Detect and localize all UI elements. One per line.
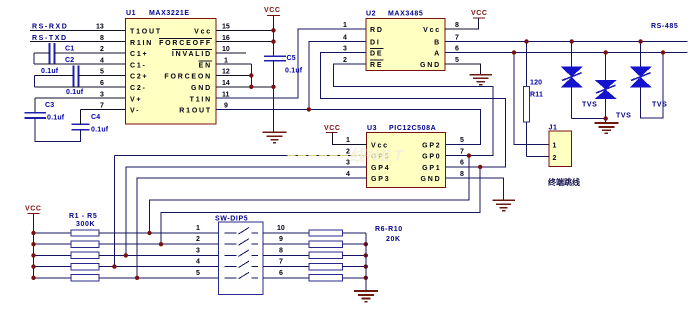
wire V+ to C3	[35, 98, 125, 113]
svg-text:INVALID: INVALID	[172, 51, 212, 58]
svg-text:C2-: C2-	[130, 85, 147, 92]
svg-text:7: 7	[455, 35, 459, 42]
op-amp U3 PIC12C508A body	[366, 125, 445, 188]
svg-text:V-: V-	[130, 108, 140, 115]
svg-text:RS-RXD: RS-RXD	[32, 24, 68, 31]
switch S3	[225, 250, 259, 257]
svg-text:C2: C2	[65, 57, 74, 64]
svg-text:6: 6	[460, 160, 464, 167]
TVS D1 on B line	[561, 42, 583, 119]
node junction TVS1 top	[570, 39, 574, 43]
node junction TVS3 top	[638, 39, 642, 43]
svg-text:4: 4	[100, 57, 104, 64]
U2 pin numbers	[343, 22, 459, 64]
svg-text:Vcc: Vcc	[423, 27, 441, 34]
op-amp U2 MAX3485 body	[366, 11, 445, 71]
svg-text:U1: U1	[126, 10, 136, 17]
wire U1 R1OUT pin9 long row to GP2 corner	[216, 109, 480, 144]
svg-text:R1OUT: R1OUT	[179, 108, 212, 115]
wire R11 bottom to J1 pin2	[527, 156, 550, 158]
svg-text:4: 4	[346, 171, 350, 178]
wire U1 pin14 GND to ground stem	[216, 86, 274, 88]
svg-text:8: 8	[455, 22, 459, 29]
ground under U3 area	[492, 200, 514, 210]
node junction VCC row1	[31, 231, 35, 235]
switch S5	[225, 272, 259, 279]
node junction GND stem	[271, 85, 275, 89]
svg-text:5: 5	[196, 270, 200, 277]
svg-text:DE: DE	[370, 51, 383, 58]
svg-text:3: 3	[343, 46, 347, 53]
svg-text:120: 120	[530, 80, 542, 87]
wire C5 bottom to ground stem	[273, 61, 275, 133]
wire U2 DI pin4 down to R1OUT row	[309, 42, 366, 110]
power VCC above U2	[445, 10, 488, 29]
svg-text:2: 2	[553, 155, 557, 162]
svg-text:11: 11	[222, 91, 230, 98]
svg-text:9: 9	[224, 103, 228, 110]
svg-text:RD: RD	[370, 27, 384, 34]
svg-text:RS-485: RS-485	[651, 23, 678, 30]
svg-text:U2: U2	[366, 11, 376, 18]
svg-text:Vcc: Vcc	[194, 29, 212, 36]
svg-text:R1 - R5: R1 - R5	[69, 213, 97, 220]
svg-text:9: 9	[279, 236, 283, 243]
wire C2+ loop to C2-	[35, 76, 126, 87]
resistor R3	[34, 252, 219, 258]
resistor R2	[34, 241, 219, 247]
U2 pin names	[370, 27, 441, 69]
wire U1 pin10 INVALID stub	[216, 52, 246, 54]
svg-text:6: 6	[100, 80, 104, 87]
wire U2 A pin6 bus	[445, 52, 688, 54]
svg-text:TVS: TVS	[616, 113, 631, 120]
svg-text:1: 1	[346, 137, 350, 144]
svg-text:8: 8	[279, 247, 283, 254]
svg-text:6: 6	[455, 46, 459, 53]
svg-text:TVS: TVS	[652, 102, 667, 109]
node junction row3 col2	[124, 253, 128, 257]
wire U3 GP3 pin4 row to DIP switch col3	[137, 178, 366, 278]
connector J1	[549, 125, 572, 167]
U1 pin names left	[130, 29, 162, 115]
power VCC above U1	[264, 7, 281, 56]
svg-text:RS-TXD: RS-TXD	[32, 35, 68, 42]
node junction R9 gnd column	[364, 264, 368, 268]
svg-text:5: 5	[455, 57, 459, 64]
resistor R4	[34, 263, 219, 269]
svg-text:U3: U3	[367, 125, 377, 132]
svg-text:5: 5	[100, 69, 104, 76]
svg-text:C1: C1	[65, 46, 74, 53]
switch S4	[225, 261, 259, 268]
svg-text:1: 1	[553, 143, 557, 150]
node junction pin15	[271, 28, 275, 32]
svg-text:RE: RE	[370, 62, 383, 69]
capacitor C4	[72, 114, 109, 134]
TVS D3 between B and A	[630, 42, 664, 119]
node junction DI-R1OUT	[307, 107, 311, 111]
svg-text:T1OUT: T1OUT	[130, 29, 162, 36]
svg-text:VCC: VCC	[324, 125, 341, 132]
svg-text:C5: C5	[287, 55, 296, 62]
resistor R9	[263, 263, 366, 269]
svg-text:2: 2	[100, 46, 104, 53]
switch S2	[225, 239, 259, 246]
wire U3 GP4 pin3 row to DIP switch col2	[126, 167, 366, 256]
svg-text:GP1: GP1	[422, 165, 441, 172]
node junction TVS bottoms	[604, 116, 608, 120]
svg-text:3: 3	[100, 91, 104, 98]
switch body SW-DIP5	[218, 222, 263, 295]
ground bottom right	[354, 291, 378, 302]
node junction A to J1	[512, 50, 516, 54]
svg-text:GP2: GP2	[422, 142, 441, 149]
node junction TVS2 top	[604, 50, 608, 54]
node junction VCC row3	[31, 253, 35, 257]
svg-text:GND: GND	[420, 62, 441, 69]
capacitor C1	[41, 43, 74, 75]
svg-text:线NET: 线NET	[349, 147, 405, 165]
svg-text:2: 2	[196, 236, 200, 243]
U1 pin numbers left	[96, 24, 104, 110]
wire C3 bottom to C4 bottom rail	[35, 118, 80, 142]
svg-text:GP3: GP3	[371, 176, 390, 183]
svg-text:7: 7	[100, 103, 104, 110]
svg-text:VCC: VCC	[471, 10, 488, 17]
node junction row2 col5	[159, 242, 163, 246]
svg-text:C4: C4	[91, 114, 100, 121]
wire U1 T1IN pin11 to U2 RD pin1	[216, 29, 366, 98]
U3 pin names	[371, 142, 442, 183]
svg-text:VCC: VCC	[264, 7, 281, 14]
wire RS-TXD to U1 pin 8	[30, 41, 126, 43]
svg-text:16: 16	[222, 35, 230, 42]
svg-text:终端跳线: 终端跳线	[547, 177, 580, 187]
svg-text:VCC: VCC	[25, 206, 42, 213]
svg-text:6: 6	[279, 270, 283, 277]
svg-text:C3: C3	[45, 102, 54, 109]
wire U3 GND pin8 to ground	[446, 178, 504, 200]
svg-text:GP0: GP0	[422, 154, 441, 161]
svg-text:0.1uf: 0.1uf	[285, 68, 303, 75]
svg-text:0.1uf: 0.1uf	[41, 68, 59, 75]
svg-text:15: 15	[222, 24, 230, 31]
ground under U2	[469, 75, 492, 85]
node junction VCC row4	[31, 264, 35, 268]
node junction R10 gnd column	[364, 276, 368, 280]
resistor R11 120 ohm termination	[523, 42, 543, 157]
svg-text:7: 7	[460, 148, 464, 155]
U1 pin names right	[159, 29, 212, 115]
svg-text:14: 14	[222, 80, 230, 87]
power VCC for U3	[324, 125, 366, 144]
wire U1 pin12 FORCEON stub	[216, 75, 251, 77]
node junction row4 col1	[112, 264, 116, 268]
wire U2 DE pin3 routing to U3 GP1	[321, 53, 506, 167]
node junction row1 col4	[147, 231, 151, 235]
svg-text:2: 2	[343, 57, 347, 64]
U3 pin numbers	[346, 137, 464, 178]
wire U3 GP0 branch to DIP switch col1 row	[150, 156, 469, 233]
svg-text:J1: J1	[549, 125, 558, 132]
svg-text:8: 8	[460, 171, 464, 178]
node junction VCC row5	[31, 276, 35, 280]
svg-text:FORCEON: FORCEON	[164, 74, 212, 81]
power VCC bottom left	[25, 206, 42, 278]
svg-text:T1IN: T1IN	[190, 96, 212, 103]
wire U1 pin16 to VCC	[216, 41, 274, 43]
capacitor C3	[25, 102, 65, 122]
wire U3 GP1 branch to DIP switch col5 row	[161, 167, 480, 244]
resistor R7	[263, 241, 366, 247]
resistor R10	[263, 275, 366, 281]
svg-text:C1-: C1-	[130, 62, 147, 69]
node junction VCC row2	[31, 242, 35, 246]
svg-text:0.1uf: 0.1uf	[91, 127, 109, 134]
svg-text:TVS: TVS	[582, 102, 597, 109]
U1 pin numbers right	[222, 24, 230, 110]
node junction pin14 at EN vertical	[249, 85, 253, 89]
switch S1	[225, 228, 259, 235]
svg-text:B: B	[434, 40, 441, 47]
TVS D2 on A line	[595, 53, 617, 123]
wire U2 B pin7 bus	[445, 41, 688, 43]
wire A bus to J1 pin1	[514, 53, 549, 145]
capacitor C2	[65, 57, 84, 96]
svg-text:R6-R10: R6-R10	[375, 226, 403, 233]
wire V- to C4	[81, 109, 126, 124]
wire RS-RXD to U1 pin 13	[30, 29, 126, 31]
svg-text:EN: EN	[199, 62, 212, 69]
wire U2 RE pin2 routing to U3 GP0	[334, 64, 493, 156]
svg-text:GND: GND	[191, 85, 212, 92]
svg-text:7: 7	[279, 259, 283, 266]
resistor R6	[263, 230, 366, 236]
svg-text:GP4: GP4	[371, 165, 390, 172]
svg-text:3: 3	[196, 247, 200, 254]
wire U2 GND pin5 to ground	[445, 64, 481, 75]
node junction row5 col3	[135, 276, 139, 280]
node junction TVS3 return to A	[661, 50, 665, 54]
op-amp U1 MAX3221E body	[126, 10, 217, 124]
svg-text:300K: 300K	[76, 221, 95, 228]
node junction pin12	[249, 73, 253, 77]
svg-text:4: 4	[343, 35, 347, 42]
resistor R1	[34, 230, 219, 236]
svg-text:8: 8	[100, 35, 104, 42]
resistor R8	[263, 252, 366, 258]
svg-text:MAX3485: MAX3485	[388, 11, 423, 18]
resistor R5	[34, 275, 219, 281]
svg-text:12: 12	[222, 69, 230, 76]
ground under TVS2	[595, 123, 619, 133]
wire U3 GP5 pin2 row to DIP switch col4 (watermark faded)	[114, 156, 366, 267]
svg-text:MAX3221E: MAX3221E	[149, 10, 190, 17]
svg-text:10: 10	[277, 225, 285, 232]
node junction GP1 branch	[478, 165, 482, 169]
svg-text:R1IN: R1IN	[130, 40, 153, 47]
node junction GP0 branch	[467, 153, 471, 157]
svg-text:13: 13	[96, 24, 104, 31]
capacitor C5	[264, 55, 303, 75]
svg-text:4: 4	[196, 259, 200, 266]
svg-text:20K: 20K	[386, 236, 401, 243]
svg-text:0.1uf: 0.1uf	[47, 115, 65, 122]
svg-text:V+: V+	[130, 96, 142, 103]
svg-text:0.1uf: 0.1uf	[66, 89, 84, 96]
ground under U1	[263, 132, 287, 143]
SW pin numbers	[196, 225, 285, 277]
wire TVS1 bottom to TVS2 bottom	[572, 118, 606, 120]
svg-text:1: 1	[196, 225, 200, 232]
svg-text:R11: R11	[530, 92, 543, 99]
node junction R7 gnd column	[364, 242, 368, 246]
wire U1 pin1 EN down to pin12/pin14	[216, 64, 251, 87]
svg-text:C2+: C2+	[130, 74, 148, 81]
svg-text:1: 1	[224, 57, 228, 64]
svg-text:1: 1	[343, 22, 347, 29]
node junction B to R11	[524, 39, 528, 43]
node junction pin16	[271, 39, 275, 43]
svg-text:10: 10	[222, 46, 230, 53]
node junction R8 gnd column	[364, 253, 368, 257]
svg-text:C1+: C1+	[130, 51, 148, 58]
svg-text:A: A	[434, 51, 441, 58]
svg-text:5: 5	[460, 137, 464, 144]
wire C1+ loop to C1-	[34, 53, 126, 64]
svg-text:FORCEOFF: FORCEOFF	[159, 40, 212, 47]
wire R6-R10 common to ground	[365, 233, 367, 291]
svg-text:DI: DI	[370, 40, 381, 47]
wire U1 pin15 to VCC	[216, 29, 274, 31]
svg-text:GND: GND	[421, 176, 442, 183]
svg-text:PIC12C508A: PIC12C508A	[389, 125, 436, 132]
